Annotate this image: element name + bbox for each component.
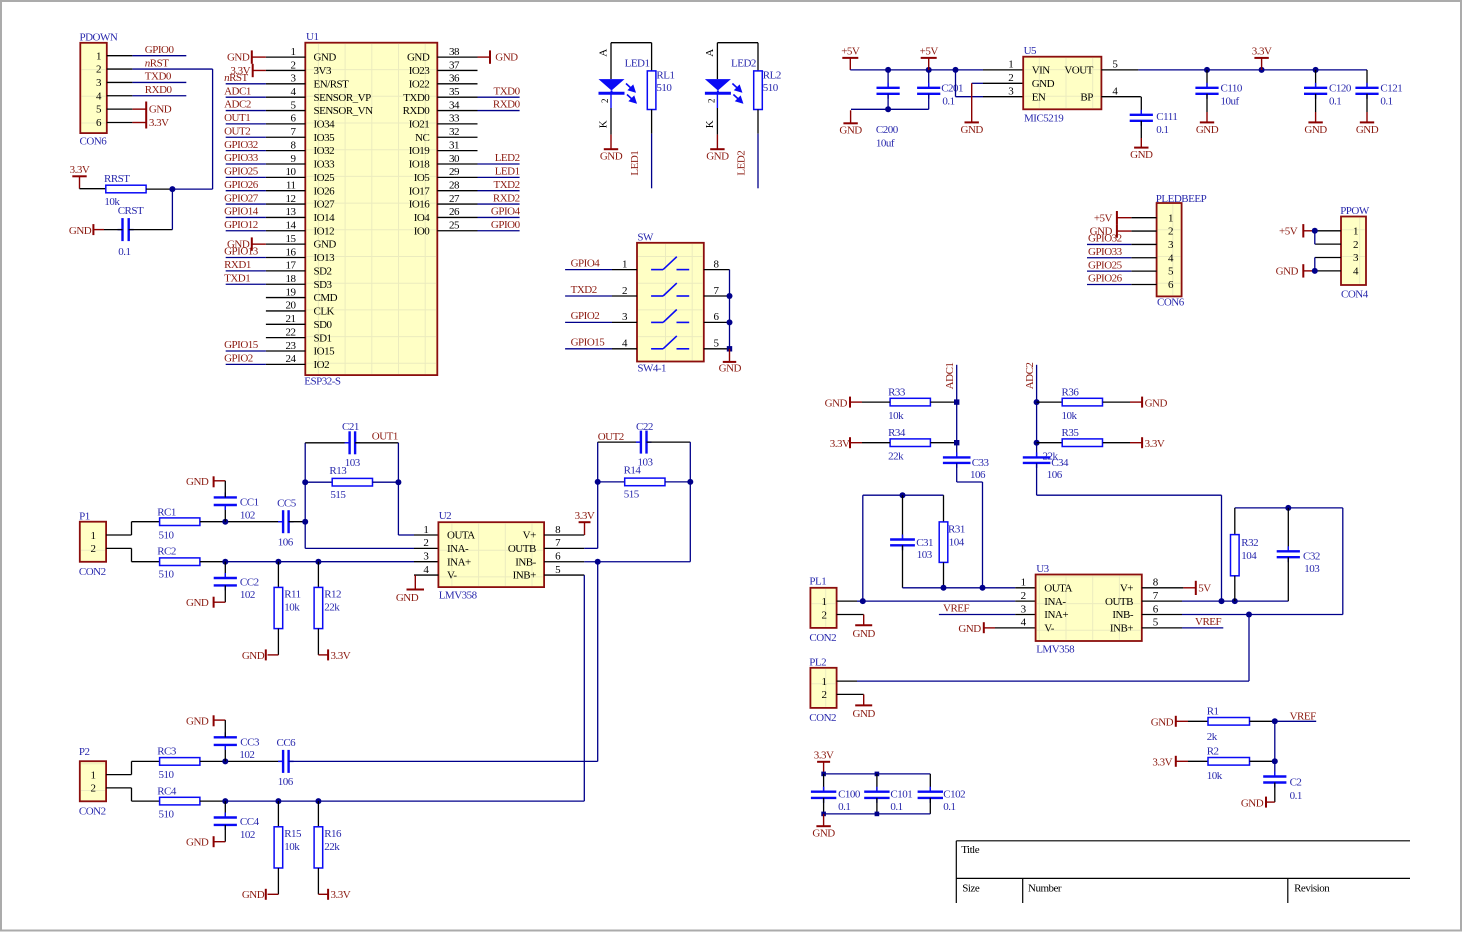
power +5V at PPOW (1279, 224, 1315, 237)
wire PPOW pin 4 stub (1316, 270, 1342, 272)
svg-text:A: A (598, 49, 610, 57)
op-amp U3 LMV358 (1021, 563, 1159, 656)
svg-text:IO4: IO4 (414, 212, 431, 224)
svg-text:RC3: RC3 (157, 746, 177, 758)
capacitor C2 0.1 (1263, 772, 1302, 803)
ground at C200 rail (839, 110, 862, 136)
svg-text:V+: V+ (1120, 582, 1133, 594)
power GND at U1 pin 15 (227, 237, 266, 250)
wire PL2 pin 1 to INB- branch (837, 614, 1249, 681)
wire PDOWN pin 4 stub (107, 95, 133, 97)
svg-text:2: 2 (822, 609, 827, 621)
svg-text:GND: GND (396, 592, 419, 604)
junction ADC2 at R35 (1034, 440, 1040, 446)
svg-text:Revision: Revision (1294, 882, 1330, 894)
svg-text:+5V: +5V (920, 46, 939, 58)
wire U1 pin 14 stub (266, 230, 305, 232)
svg-text:R14: R14 (624, 465, 642, 477)
svg-text:30: 30 (449, 153, 460, 165)
capacitor C33 106 (943, 452, 990, 481)
junction R16 node (315, 798, 321, 804)
svg-text:33: 33 (449, 113, 460, 125)
connector P2 CON2 (79, 746, 106, 817)
svg-text:10uf: 10uf (876, 138, 895, 150)
svg-text:R35: R35 (1062, 427, 1080, 439)
power 3.3V at R12 (318, 629, 350, 662)
net label GPIO14 at U1 pin 13 (224, 206, 266, 218)
svg-text:16: 16 (286, 246, 297, 258)
svg-text:OUT2: OUT2 (598, 431, 624, 443)
wire PDOWN pin 2 stub (107, 68, 133, 70)
LED LED2 (705, 58, 756, 104)
wire PLEDBEEP pin 5 stub (1131, 270, 1156, 272)
wire U1 pin 9 stub (266, 163, 305, 165)
wire SW pin 1 stub (612, 269, 637, 271)
svg-text:1: 1 (423, 524, 428, 536)
svg-text:C111: C111 (1156, 111, 1177, 123)
svg-text:R1: R1 (1207, 706, 1219, 718)
svg-text:R11: R11 (284, 589, 300, 601)
net label GPIO15 at U1 pin 23 (224, 339, 266, 351)
svg-text:CMD: CMD (314, 292, 338, 304)
wire CRST to node (129, 189, 173, 230)
svg-text:GPIO32: GPIO32 (1088, 233, 1122, 245)
net label GPIO2 at SW pin 3 (565, 310, 612, 322)
svg-text:IO19: IO19 (409, 145, 431, 157)
svg-text:INB-: INB- (515, 556, 536, 568)
power 3.3V at PDOWN pin 6 (132, 115, 169, 129)
svg-text:11: 11 (286, 180, 296, 192)
wire U2 pin 8 stub (544, 534, 584, 536)
svg-text:106: 106 (278, 536, 294, 548)
svg-text:TXD0: TXD0 (145, 71, 172, 83)
wire P1 pin 1 to RC1 (106, 522, 160, 535)
svg-text:26: 26 (449, 206, 460, 218)
svg-text:SW4-1: SW4-1 (637, 363, 666, 375)
svg-text:1: 1 (91, 530, 96, 542)
ground at PL2 pin 2 (853, 705, 876, 720)
svg-text:103: 103 (1304, 563, 1320, 575)
svg-text:CRST: CRST (118, 205, 144, 217)
svg-text:GPIO27: GPIO27 (224, 192, 259, 204)
junction OUTB at R32 (1232, 598, 1238, 604)
svg-text:GND: GND (186, 476, 209, 488)
junction CC4 node (222, 798, 228, 804)
connector P1 CON2 (79, 511, 106, 579)
svg-text:GND: GND (1276, 265, 1299, 277)
svg-text:RC4: RC4 (157, 785, 177, 797)
svg-text:510: 510 (159, 569, 175, 581)
wire R32/C32 right vertical (1342, 508, 1344, 615)
svg-text:IO21: IO21 (409, 119, 430, 131)
svg-text:3.3V: 3.3V (575, 510, 595, 522)
svg-text:GPIO2: GPIO2 (571, 310, 600, 322)
junction SW pin 7 (727, 293, 733, 299)
junction C32 top (1285, 505, 1291, 511)
wire LED1 cathode (598, 93, 612, 134)
svg-text:GND: GND (719, 363, 742, 375)
svg-text:19: 19 (286, 286, 297, 298)
wire R32/C32 top rail (1235, 507, 1343, 509)
svg-text:TXD2: TXD2 (571, 284, 597, 296)
svg-text:CON6: CON6 (80, 136, 108, 148)
svg-text:3.3V: 3.3V (331, 889, 351, 901)
svg-text:LED1: LED1 (629, 151, 641, 176)
svg-text:CON4: CON4 (1341, 288, 1369, 300)
svg-text:GND: GND (961, 124, 984, 136)
svg-text:10uf: 10uf (1221, 96, 1240, 108)
wire CC5 to feedback node (289, 521, 306, 523)
svg-text:0.1: 0.1 (1380, 96, 1392, 108)
svg-text:IO13: IO13 (314, 252, 336, 264)
junction PPOW pin 4 (1312, 268, 1318, 274)
svg-text:R33: R33 (888, 387, 906, 399)
wire U5 VOUT pin 5 (1101, 69, 1138, 71)
junction rail at C110 (1204, 67, 1210, 73)
svg-text:BP: BP (1080, 91, 1093, 103)
svg-text:R36: R36 (1062, 387, 1080, 399)
svg-text:0.1: 0.1 (1329, 96, 1341, 108)
capacitor CC5 106 (277, 497, 297, 548)
svg-text:IO35: IO35 (314, 132, 336, 144)
svg-text:15: 15 (286, 233, 297, 245)
svg-text:RXD0: RXD0 (403, 105, 431, 117)
wire U1 pin 35 stub (437, 96, 477, 98)
net label GPIO26 at U1 pin 11 (224, 179, 266, 191)
svg-text:1: 1 (822, 596, 827, 608)
wire C34 to OUTB node (1037, 463, 1222, 601)
svg-text:2: 2 (91, 783, 96, 795)
wire pin6 down to CC6 (597, 562, 599, 762)
svg-text:3.3V: 3.3V (1152, 757, 1172, 769)
svg-text:U5: U5 (1024, 45, 1037, 57)
svg-text:GND: GND (186, 836, 209, 848)
svg-text:RL1: RL1 (656, 70, 674, 82)
wire PPOW pin 2 stub (1316, 243, 1342, 245)
wire PDOWN pin 1 stub (107, 55, 133, 57)
wire LED2 top rail (717, 42, 758, 44)
junction R15 node (275, 798, 281, 804)
ground at U5 pin 2 (961, 122, 984, 135)
svg-text:V-: V- (1044, 622, 1054, 634)
svg-text:INA-: INA- (1044, 596, 1066, 608)
wire R34 to ADC1 node (930, 442, 956, 444)
wire PLEDBEEP pin 1 stub (1131, 217, 1156, 219)
wire R1 to VREF node (1250, 720, 1275, 722)
junction C101 top (875, 772, 880, 777)
svg-text:IO27: IO27 (314, 199, 336, 211)
junction R14 left (595, 479, 601, 485)
svg-text:INB+: INB+ (1110, 622, 1133, 634)
ground at LED2 cathode (706, 135, 729, 163)
svg-text:LMV358: LMV358 (1036, 643, 1075, 655)
wire RC4 row to U2 pin 5 (200, 800, 584, 802)
svg-text:C110: C110 (1221, 82, 1243, 94)
svg-text:510: 510 (159, 530, 175, 542)
svg-text:GND: GND (825, 398, 848, 410)
svg-text:GND: GND (227, 52, 250, 64)
svg-text:PPOW: PPOW (1340, 205, 1370, 217)
wire U1 pin 24 stub (266, 363, 305, 365)
power 3.3V on rail (1252, 46, 1272, 70)
svg-text:GND: GND (186, 597, 209, 609)
svg-text:GPIO2: GPIO2 (224, 353, 253, 365)
resistor R12 22k (314, 562, 341, 629)
wire VREF node vertical (1274, 721, 1276, 776)
net label GPIO33 at PLEDBEEP pin 4 (1087, 246, 1131, 258)
svg-text:OUT1: OUT1 (372, 431, 398, 443)
power GND at R36 (1103, 397, 1168, 410)
svg-text:GND: GND (242, 650, 265, 662)
wire 3.3V to RRST (80, 188, 106, 190)
resistor R36 10k (1037, 387, 1103, 422)
net label GPIO13 at U1 pin 16 (224, 246, 266, 258)
svg-text:C34: C34 (1051, 457, 1069, 469)
resistor R32 104 (1231, 508, 1259, 601)
power GND at R33 (825, 397, 890, 410)
svg-text:+5V: +5V (1094, 212, 1113, 224)
ground at C120 (1304, 122, 1327, 135)
wire U1 pin 4 stub (266, 96, 305, 98)
svg-text:C21: C21 (342, 421, 359, 433)
power GND at PPOW (1276, 264, 1315, 277)
wire U1 pin 37 stub (437, 69, 477, 71)
net label GPIO0 (132, 44, 186, 56)
svg-text:IO16: IO16 (409, 199, 431, 211)
resistor R16 22k (314, 801, 342, 868)
svg-text:GPIO25: GPIO25 (224, 166, 259, 178)
power 3.3V at decoupling bank (814, 750, 834, 774)
svg-text:GND: GND (1241, 797, 1264, 809)
wire node to nRST vertical (172, 188, 212, 190)
power GND at PDOWN pin 5 (132, 102, 171, 116)
wire U1 pin 2 stub (266, 69, 305, 71)
svg-text:10k: 10k (284, 602, 300, 614)
svg-text:R13: R13 (329, 465, 347, 477)
svg-text:CLK: CLK (314, 306, 335, 318)
svg-text:GND: GND (314, 52, 337, 64)
svg-text:GND: GND (227, 239, 250, 251)
svg-text:C31: C31 (916, 537, 933, 549)
wire U1 pin 33 stub (437, 123, 477, 125)
svg-text:GPIO12: GPIO12 (224, 219, 258, 231)
ground at C110 (1196, 122, 1219, 135)
svg-text:TXD0: TXD0 (493, 85, 520, 97)
svg-text:+5V: +5V (841, 46, 860, 58)
svg-text:CON6: CON6 (1157, 296, 1185, 308)
svg-text:0.1: 0.1 (943, 801, 955, 813)
junction R14 right (687, 479, 693, 485)
svg-text:GND: GND (839, 125, 862, 137)
wire U2 pin 7 to OUT2 loop (544, 547, 598, 549)
svg-text:nRST: nRST (145, 57, 169, 69)
svg-text:IO12: IO12 (314, 225, 335, 237)
svg-text:nRST: nRST (224, 72, 248, 84)
capacitor C32 103 (1277, 508, 1321, 601)
wire RC3 to CC6 (200, 760, 283, 762)
svg-text:Size: Size (962, 882, 980, 894)
net label LED2 at U1 pin 30 (478, 152, 520, 164)
svg-text:102: 102 (239, 749, 254, 761)
svg-text:SD2: SD2 (314, 265, 332, 277)
svg-text:OUT1: OUT1 (224, 112, 250, 124)
svg-text:3.3V: 3.3V (70, 164, 90, 176)
svg-text:GPIO15: GPIO15 (224, 339, 259, 351)
capacitor C120 0.1 (1304, 70, 1352, 123)
wire feedback left vertical (304, 443, 306, 549)
svg-text:GND: GND (1145, 398, 1168, 410)
junction C33 branch bottom (980, 585, 986, 591)
capacitor C102 0.1 (918, 774, 966, 814)
svg-text:3.3V: 3.3V (149, 117, 169, 129)
junction PPOW pin 1 (1312, 228, 1318, 234)
svg-text:IO18: IO18 (409, 159, 431, 171)
svg-text:IO32: IO32 (314, 145, 335, 157)
junction rail at C120 (1313, 67, 1319, 73)
wire U1 pin 13 stub (266, 216, 305, 218)
junction INB- at PL2 branch (1246, 612, 1252, 618)
svg-text:IO26: IO26 (314, 185, 336, 197)
net label GPIO32 at U1 pin 8 (224, 139, 266, 151)
net label OUT2 (598, 431, 624, 443)
svg-text:GPIO0: GPIO0 (145, 44, 175, 56)
svg-text:GND: GND (186, 715, 209, 727)
svg-text:2: 2 (1353, 239, 1358, 251)
net label RXD2 at U1 pin 27 (478, 192, 520, 204)
svg-text:106: 106 (970, 469, 986, 481)
ground at R15 (242, 868, 279, 901)
resistor R2 10k (1207, 746, 1250, 782)
connector PL1 CON2 (809, 576, 836, 644)
svg-text:RXD1: RXD1 (224, 259, 251, 271)
svg-text:LED2: LED2 (736, 151, 748, 176)
svg-text:CON2: CON2 (809, 632, 836, 644)
svg-text:3.3V: 3.3V (830, 438, 850, 450)
wire PL1 pin 2 to ground (837, 615, 864, 626)
power 5V at U3 pin 8 (1183, 581, 1211, 595)
svg-text:R12: R12 (324, 589, 341, 601)
svg-text:2: 2 (622, 285, 627, 297)
net label nRST / wire to RRST node (132, 57, 212, 189)
svg-text:GND: GND (1304, 124, 1327, 136)
svg-text:GND: GND (958, 623, 981, 635)
svg-text:TXD2: TXD2 (493, 179, 519, 191)
junction ADC1 at R34 (954, 440, 959, 445)
svg-text:PL2: PL2 (809, 657, 826, 669)
svg-text:2: 2 (600, 99, 610, 103)
junction C100 top (821, 772, 826, 777)
svg-text:1: 1 (1021, 577, 1026, 589)
junction C101 bottom (875, 812, 880, 817)
svg-text:102: 102 (240, 509, 255, 521)
svg-text:22: 22 (286, 326, 296, 338)
wire PLEDBEEP pin 6 stub (1131, 284, 1156, 286)
svg-text:IO23: IO23 (409, 65, 431, 77)
svg-text:20: 20 (286, 300, 297, 312)
capacitor C34 106 (1023, 452, 1069, 481)
svg-text:R2: R2 (1207, 746, 1219, 758)
net label OUT2 at U1 pin 7 (224, 125, 266, 137)
svg-text:37: 37 (449, 59, 460, 71)
wire U1 pin 22 stub (266, 337, 305, 339)
svg-text:SW: SW (637, 231, 654, 243)
svg-text:A: A (704, 49, 716, 57)
svg-text:CC6: CC6 (277, 737, 297, 749)
svg-text:1: 1 (1168, 212, 1173, 224)
svg-text:0.1: 0.1 (838, 801, 850, 813)
wire PL1 pin 1 (837, 600, 863, 602)
capacitor C110 10uf (1195, 70, 1243, 123)
wire U1 pin 12 stub (266, 203, 305, 205)
net label GPIO4 at SW pin 1 (565, 257, 612, 269)
svg-text:RL2: RL2 (763, 70, 781, 82)
wire U1 pin 30 stub (437, 163, 477, 165)
svg-text:GND: GND (314, 239, 337, 251)
connector PL2 CON2 (809, 657, 836, 724)
wire LED2 anode (704, 43, 718, 79)
junction PL1 node (860, 598, 866, 604)
resistor R15 10k (274, 801, 302, 868)
svg-text:10k: 10k (1207, 770, 1223, 782)
svg-text:3V3: 3V3 (314, 65, 332, 77)
resistor RC2 510 (157, 546, 200, 581)
connector PPOW CON4 (1340, 205, 1370, 300)
svg-text:SD0: SD0 (314, 319, 333, 331)
svg-text:17: 17 (286, 260, 297, 272)
svg-text:U1: U1 (306, 31, 318, 43)
svg-text:IO25: IO25 (314, 172, 336, 184)
resistor R11 10k (274, 562, 301, 629)
wire SW pin 5 stub (704, 348, 730, 350)
svg-text:INB-: INB- (1112, 609, 1133, 621)
ground at CC4 (186, 825, 225, 849)
svg-text:0.1: 0.1 (118, 246, 130, 258)
svg-text:LED2: LED2 (731, 58, 756, 70)
power 3.3V at R34 (830, 437, 890, 450)
svg-text:CC3: CC3 (240, 736, 260, 748)
net label VREF at U3 pin 3 (939, 603, 1036, 615)
svg-text:1: 1 (622, 258, 627, 270)
svg-text:515: 515 (330, 489, 346, 501)
wire OUTA feedback row (903, 587, 1036, 589)
net label GPIO15 at SW pin 4 (565, 337, 612, 349)
junction rail at C200 (885, 67, 891, 73)
junction R13 left (302, 479, 308, 485)
wire U1 pin 1 stub (266, 56, 305, 58)
power 3.3V at R2 (1152, 756, 1208, 769)
svg-text:28: 28 (449, 180, 460, 192)
svg-text:10k: 10k (284, 841, 300, 853)
svg-text:U3: U3 (1036, 563, 1049, 575)
svg-text:GND: GND (407, 52, 430, 64)
svg-text:GPIO4: GPIO4 (491, 206, 521, 218)
power GND at U1 pin 38 (478, 50, 519, 63)
svg-text:VREF: VREF (1195, 616, 1222, 628)
svg-text:106: 106 (278, 776, 294, 788)
power 3.3V at R16 (318, 868, 350, 901)
svg-text:R32: R32 (1241, 537, 1258, 549)
svg-text:IO5: IO5 (414, 172, 431, 184)
wire SW pin 3 stub (612, 321, 637, 323)
svg-text:LED1: LED1 (625, 58, 650, 70)
svg-text:GPIO26: GPIO26 (1088, 273, 1123, 285)
resistor R31 104 (939, 495, 965, 588)
svg-text:TXD0: TXD0 (403, 92, 430, 104)
svg-text:29: 29 (449, 166, 460, 178)
svg-text:R15: R15 (284, 828, 302, 840)
net label GPIO27 at U1 pin 12 (224, 192, 266, 204)
junction SW pin 5 (727, 346, 732, 351)
